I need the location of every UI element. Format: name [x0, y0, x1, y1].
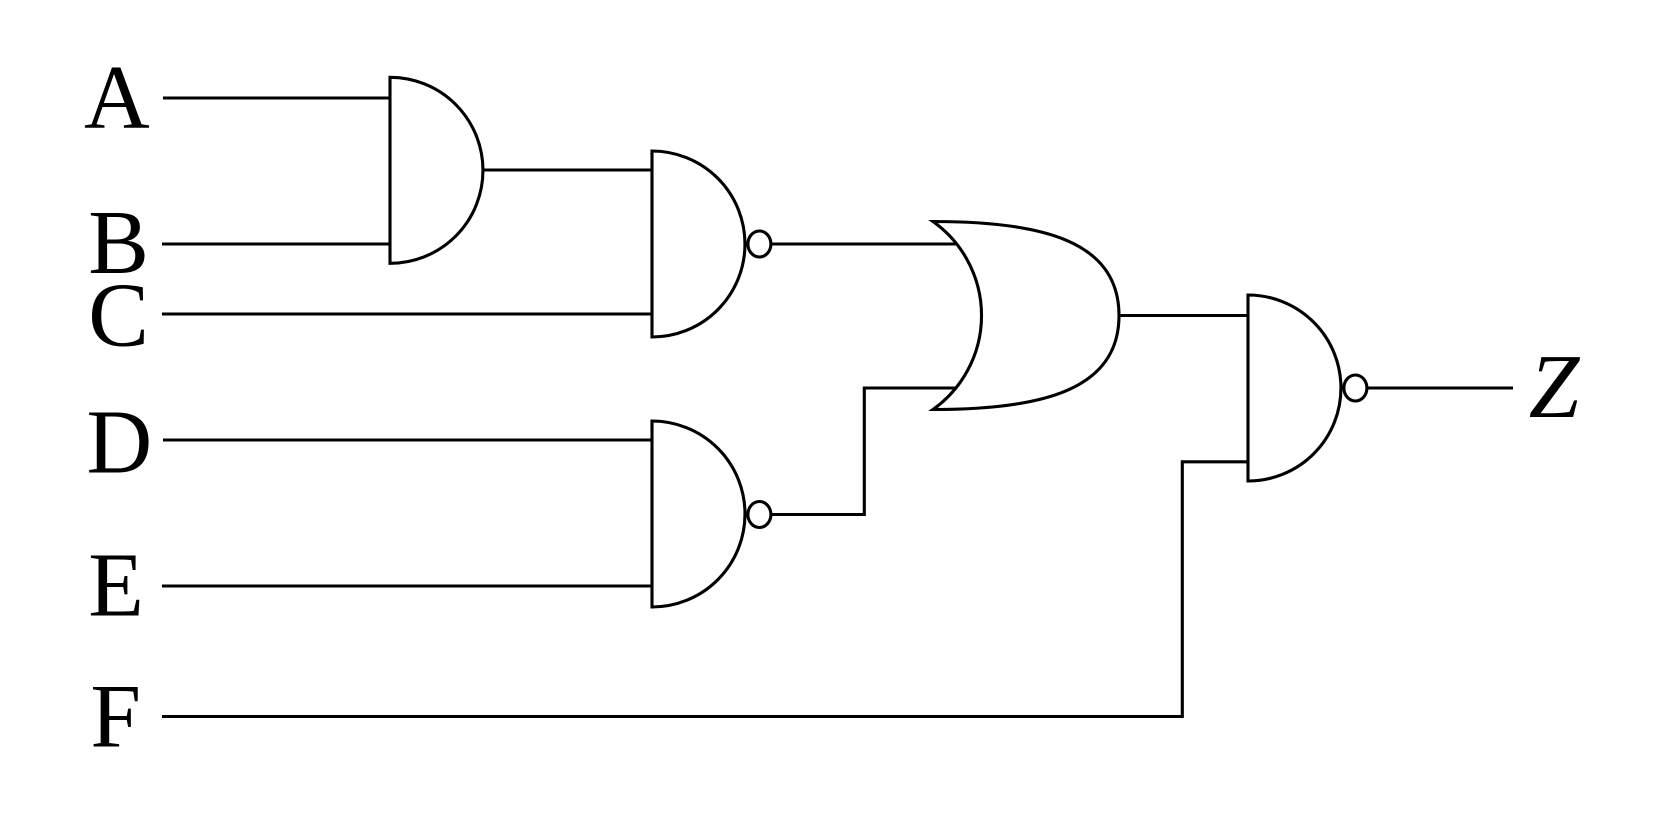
svg-text:Z: Z: [1529, 336, 1581, 437]
svg-text:C: C: [88, 265, 149, 366]
svg-text:A: A: [84, 47, 150, 148]
NAND gate U3 bubble: [748, 502, 771, 528]
wire input A: [163, 96, 392, 99]
svg-text:D: D: [86, 392, 152, 493]
NAND gate U2 bubble: [748, 231, 771, 257]
wire input D: [163, 438, 654, 441]
svg-text:E: E: [88, 535, 144, 636]
wire U2 output to U4 input: [771, 242, 958, 245]
NAND gate U5 bubble: [1344, 375, 1367, 401]
wire U3 output to U4 input: [771, 388, 959, 515]
svg-text:F: F: [90, 666, 141, 767]
wire U4 output to U5 input: [1119, 314, 1250, 317]
wire input F: [162, 462, 1250, 717]
OR gate U4: [933, 222, 1119, 410]
NAND gate U5 body: [1248, 295, 1341, 481]
wire input C: [162, 312, 654, 315]
wire input B: [162, 242, 392, 245]
NAND gate U2 body: [652, 151, 745, 337]
wire input E: [162, 584, 654, 587]
wire U1 output to U2 input: [483, 168, 654, 171]
wire U5 output to Z: [1367, 386, 1513, 389]
NAND gate U3 body: [652, 421, 745, 607]
AND gate U1: [390, 77, 483, 263]
